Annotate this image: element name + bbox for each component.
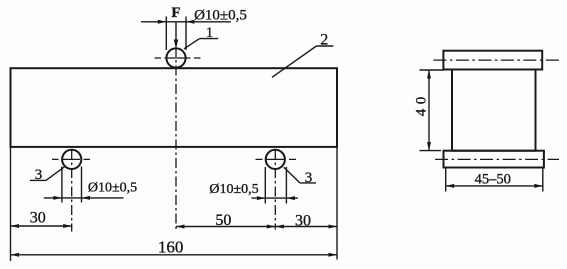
vertical centerline of specimen — [175, 47, 177, 229]
left dia10 dimension line — [44, 197, 124, 199]
right roller vertical centerline — [274, 150, 276, 230]
svg-text:1: 1 — [206, 25, 214, 41]
roller 1 horizontal centerline — [155, 57, 201, 59]
svg-text:30: 30 — [295, 213, 311, 230]
top dia10 arrows — [158, 20, 167, 24]
specimen 2 outline (front view) — [11, 68, 338, 147]
svg-text:Ø10±0,5: Ø10±0,5 — [209, 182, 258, 197]
right extension line (right edge extended down) — [336, 147, 338, 260]
svg-text:30: 30 — [30, 210, 46, 227]
dimension 40 extension lines — [420, 69, 445, 71]
leader for label 2 — [316, 45, 333, 47]
leader for label 1 — [200, 38, 219, 40]
svg-text:50: 50 — [215, 212, 231, 229]
side view: specimen cross-section — [452, 70, 536, 151]
right dia10 dimension line — [251, 197, 298, 199]
top dia10 extension lines — [165, 17, 167, 51]
left extension line (left edge extended down) — [10, 147, 12, 261]
side view: bottom roller centerline — [435, 158, 559, 160]
svg-text:Ø10±0,5: Ø10±0,5 — [194, 8, 247, 24]
loading roller 1 — [166, 48, 185, 67]
side view: bottom roller bar — [444, 151, 544, 168]
svg-text:3: 3 — [305, 170, 313, 186]
leader for right label 3 — [300, 182, 316, 184]
svg-text:F: F — [171, 5, 180, 21]
svg-text:40: 40 — [414, 92, 430, 116]
dimension line 160 — [11, 254, 338, 256]
left dia10 arrows — [53, 196, 62, 200]
side view: top roller bar — [443, 51, 542, 70]
force F arrow — [175, 22, 177, 47]
svg-text:45–50: 45–50 — [475, 172, 511, 188]
left roller vertical centerline — [71, 150, 73, 232]
svg-text:Ø10±0,5: Ø10±0,5 — [88, 181, 137, 196]
dimension line 50 and 30 (right) — [176, 226, 337, 228]
right dia10 extension lines — [264, 167, 266, 204]
leader for left label 3 — [30, 179, 46, 181]
dimension 45-50 line — [446, 185, 543, 187]
dimension line 30 (left) — [11, 225, 72, 227]
dimension 45-50 extension lines — [445, 169, 447, 192]
support roller 3 (right) — [266, 150, 285, 169]
dimension 40 vertical line — [428, 70, 430, 151]
top dia10 dimension line — [141, 21, 231, 23]
support roller 3 (left) — [62, 150, 81, 169]
right dia10 arrows — [257, 196, 266, 200]
side view: top roller centerline — [433, 59, 560, 61]
svg-text:2: 2 — [320, 32, 328, 49]
svg-text:3: 3 — [35, 167, 43, 183]
left dia10 extension lines — [61, 167, 63, 203]
left roller horizontal centerline — [52, 158, 90, 160]
svg-text:160: 160 — [158, 238, 184, 257]
right roller horizontal centerline — [256, 158, 297, 160]
